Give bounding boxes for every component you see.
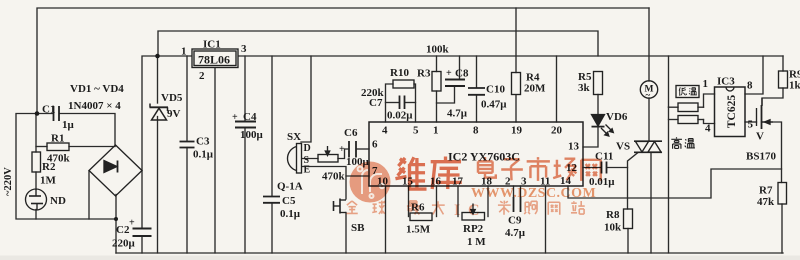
svg-text:E: E	[304, 165, 311, 176]
svg-text:20M: 20M	[524, 83, 546, 95]
wire C8 riser	[459, 56, 461, 79]
svg-text:R3: R3	[417, 68, 431, 80]
wire temp select rail	[668, 56, 670, 107]
svg-text:5: 5	[413, 125, 419, 137]
wire resistor stubs right	[698, 106, 704, 108]
resistor R1	[47, 143, 69, 151]
trimmer 470k	[318, 146, 338, 162]
svg-text:+: +	[446, 68, 452, 79]
svg-text:78L06: 78L06	[198, 53, 230, 67]
watermark char qiu	[372, 201, 385, 214]
svg-text:1.5M: 1.5M	[406, 224, 431, 236]
wire C3 branch	[186, 56, 188, 141]
svg-text:1: 1	[433, 125, 439, 137]
wire ND to AC bottom	[35, 210, 37, 220]
svg-text:C6: C6	[344, 127, 358, 139]
capacitor C6 polarized	[349, 141, 356, 158]
svg-text:47k: 47k	[757, 196, 775, 208]
wire 6V bus from IC1 pin3	[238, 55, 783, 57]
watermark char da	[432, 201, 445, 214]
zener diode VD5	[150, 104, 169, 121]
wire R3 riser	[436, 56, 438, 72]
svg-text:BS170: BS170	[746, 151, 776, 163]
capacitor C5	[263, 197, 280, 203]
wire sensor S to 470k	[302, 158, 319, 160]
wire pin15 drop	[408, 186, 410, 217]
wire VD5 branch	[157, 56, 159, 103]
svg-text:D: D	[304, 143, 311, 154]
wire bridge left vertex down	[88, 171, 90, 219]
wire pin18 drop	[487, 186, 489, 217]
neon lamp ND	[26, 189, 47, 210]
watermark logo circle	[350, 162, 391, 203]
svg-text:~: ~	[646, 90, 651, 100]
svg-text:8: 8	[473, 125, 479, 137]
svg-text:RP2: RP2	[463, 223, 484, 235]
svg-text:C: C	[468, 202, 480, 219]
svg-text:8: 8	[747, 80, 753, 92]
svg-text:+: +	[339, 144, 345, 155]
wire C8 bottom to pin1 net	[437, 87, 455, 104]
wire R9 bottom to drain	[762, 88, 783, 105]
watermark char wei	[395, 157, 426, 189]
wire source to R7	[762, 122, 782, 183]
svg-text:470k: 470k	[322, 171, 346, 183]
svg-text:3: 3	[241, 43, 247, 55]
svg-text:C8: C8	[455, 68, 469, 80]
wire C4 branch	[244, 56, 246, 121]
svg-text:5: 5	[748, 119, 754, 131]
wire IC3 pin4	[704, 120, 715, 124]
wire R2 to ND	[35, 172, 37, 190]
watermark char gou	[524, 201, 537, 214]
wire	[271, 204, 273, 253]
label box low-temp	[676, 86, 699, 98]
wire triac to ground	[650, 152, 652, 253]
svg-text:V: V	[756, 131, 764, 143]
svg-text:1M: 1M	[40, 175, 57, 187]
wire C6 to pin6	[357, 148, 369, 150]
wire pin12 to C11	[583, 167, 601, 169]
potentiometer RP2	[462, 204, 485, 221]
wire C5 branch	[271, 56, 273, 196]
wire	[244, 128, 246, 253]
wire gate node to R8	[627, 168, 629, 210]
svg-text:10k: 10k	[604, 222, 622, 234]
node A junction dot AC input	[35, 111, 40, 116]
svg-text:R1: R1	[51, 133, 64, 145]
svg-text:R7: R7	[759, 185, 773, 197]
voltage regulator IC1 78L06	[192, 49, 238, 68]
wire	[141, 237, 143, 253]
IC U3 TC625	[715, 87, 746, 137]
label low-temp glyphs	[679, 87, 697, 95]
wire IC3 pin5 to gate	[745, 121, 757, 123]
svg-text:R10: R10	[390, 67, 409, 79]
svg-text:0.02μ: 0.02μ	[387, 110, 413, 122]
watermark char quan	[347, 201, 358, 213]
wire C1 branch to bridge top	[38, 113, 53, 115]
wire pin2 drop to C9	[513, 186, 515, 197]
wire motor to triac	[648, 98, 650, 141]
svg-text:VS: VS	[616, 141, 630, 153]
wire R9 from 6V bus	[782, 56, 784, 71]
wire	[69, 146, 115, 148]
svg-text:C10: C10	[486, 84, 505, 96]
capacitor C8 polarized	[445, 80, 465, 87]
svg-text:~220V: ~220V	[3, 167, 14, 196]
resistor R4	[512, 73, 521, 95]
wire R3 to pin1	[436, 91, 438, 122]
LED VD6	[592, 115, 614, 137]
capacitor C3	[180, 142, 195, 148]
wire	[405, 102, 416, 104]
capacitor C4 polarized	[235, 122, 256, 128]
wire IC3 pin1	[704, 94, 715, 107]
wire	[186, 148, 188, 254]
node C junction dot AC bottom	[114, 217, 118, 221]
wire 9V bus	[158, 31, 598, 56]
capacitor C1	[54, 106, 60, 121]
wire IC3 pin8 riser to 6V	[745, 56, 763, 94]
svg-text:4.7μ: 4.7μ	[505, 227, 526, 239]
svg-text:1N4007 × 4: 1N4007 × 4	[68, 100, 121, 112]
svg-text:20: 20	[551, 125, 563, 137]
svg-text:100μ: 100μ	[240, 129, 264, 141]
svg-text:4: 4	[382, 125, 388, 137]
wire motor feed	[648, 8, 650, 81]
svg-text:C3: C3	[196, 136, 210, 148]
svg-text:9V: 9V	[167, 108, 181, 120]
bridge rectifier VD1-VD4	[89, 145, 142, 196]
svg-text:IC3: IC3	[717, 76, 735, 88]
wire bridge right vertex up to 9V node	[142, 56, 192, 171]
svg-text:2: 2	[199, 70, 205, 82]
wire	[668, 107, 670, 253]
wire C2 branch	[141, 171, 143, 228]
wire	[698, 119, 704, 121]
svg-text:13: 13	[568, 141, 580, 153]
wire pin10 to ground	[385, 186, 387, 253]
svg-text:VD1 ~ VD4: VD1 ~ VD4	[70, 83, 124, 95]
svg-text:SB: SB	[351, 222, 365, 234]
svg-text:C7: C7	[369, 97, 383, 109]
wire top AC bus	[37, 8, 649, 114]
svg-text:WWW.DZSC.COM: WWW.DZSC.COM	[471, 186, 596, 201]
watermark char cai	[498, 201, 511, 215]
wire ground bus	[116, 252, 783, 254]
wire R1 parallel branch	[35, 114, 37, 152]
resistor R3	[432, 72, 441, 92]
wire	[60, 114, 115, 147]
svg-text:1μ: 1μ	[62, 119, 75, 131]
wire	[414, 84, 416, 122]
watermark char zhan	[571, 201, 585, 214]
svg-text:1k: 1k	[789, 80, 800, 92]
wire	[157, 117, 159, 254]
watermark char shi	[527, 157, 550, 181]
svg-text:3k: 3k	[578, 82, 591, 94]
svg-text:ND: ND	[50, 195, 66, 207]
capacitor C11	[602, 162, 607, 174]
svg-text:1 M: 1 M	[467, 236, 486, 248]
resistor R6	[410, 213, 432, 221]
svg-text:4: 4	[705, 123, 711, 135]
svg-text:C1: C1	[42, 104, 55, 116]
svg-text:0.1μ: 0.1μ	[280, 208, 301, 220]
svg-text:0.47μ: 0.47μ	[481, 99, 507, 111]
wire R4 riser from AC bus	[515, 8, 517, 73]
watermark char zui	[407, 201, 420, 214]
svg-text:SX: SX	[287, 131, 301, 143]
watermark char wang2	[548, 202, 560, 214]
svg-text:VD6: VD6	[606, 111, 628, 123]
wire C11 to gate node	[607, 153, 638, 168]
svg-text:100k: 100k	[426, 44, 450, 56]
wire R8 to ground	[627, 229, 629, 254]
capacitor C7	[400, 96, 405, 110]
wire	[669, 119, 679, 121]
resistor temp select upper	[678, 103, 698, 112]
node B junction dot 9V rail	[155, 54, 160, 59]
svg-text:4.7μ: 4.7μ	[447, 108, 468, 120]
humidity sensor SX Q-1A	[288, 144, 302, 174]
watermark char wang	[581, 160, 600, 181]
wire sensor D riser	[301, 56, 311, 142]
triac VS	[634, 141, 662, 152]
svg-text:6: 6	[372, 139, 378, 151]
wire 470k to C6	[338, 149, 348, 159]
svg-text:C2: C2	[116, 224, 130, 236]
wire C10 to pin8	[476, 95, 478, 122]
svg-text:+: +	[129, 218, 135, 229]
wire R5 to VD6	[597, 95, 599, 115]
wire R4 to pin19	[515, 95, 517, 122]
svg-text:C9: C9	[508, 215, 522, 227]
label high-temp glyphs	[671, 137, 695, 148]
svg-text:+: +	[232, 112, 238, 123]
svg-text:IC1: IC1	[203, 39, 221, 51]
wire IC1 pin2 to ground	[214, 68, 216, 253]
wire R7 to ground	[781, 204, 783, 253]
svg-text:I: I	[454, 202, 460, 219]
wire pin7	[346, 175, 369, 177]
wire pin14 to MOSFET source	[568, 169, 782, 198]
wire sensor E lead	[302, 167, 347, 200]
wire	[36, 146, 47, 148]
IC U2 YX7603C	[369, 122, 583, 186]
wire pin3 drop to C9	[520, 186, 522, 197]
resistor R8	[624, 209, 633, 229]
resistor R9	[779, 71, 788, 88]
watermark char chang	[553, 159, 576, 181]
svg-text:1: 1	[703, 78, 709, 90]
wire	[386, 102, 399, 104]
wire resistor stubs left	[669, 106, 679, 108]
capacitor C10	[468, 88, 485, 95]
svg-text:220μ: 220μ	[112, 238, 136, 250]
svg-text:C5: C5	[282, 195, 296, 207]
wire C10 riser	[476, 56, 478, 88]
motor M	[640, 81, 657, 98]
watermark char zi	[501, 159, 523, 180]
svg-text:Q-1A: Q-1A	[277, 181, 303, 193]
svg-text:R2: R2	[42, 161, 56, 173]
wire pin16 drop	[436, 186, 438, 217]
svg-text:R8: R8	[606, 209, 620, 221]
resistor R5	[594, 72, 603, 95]
watermark char dian	[478, 157, 496, 178]
svg-text:C4: C4	[243, 111, 257, 123]
svg-text:0.1μ: 0.1μ	[193, 149, 214, 161]
capacitor C9	[514, 197, 521, 212]
svg-text:VD5: VD5	[161, 92, 183, 104]
wire pin11 to ground	[545, 186, 547, 253]
wire VD6 to pin13	[583, 127, 598, 147]
wire pin4 pin5 R10 C7	[386, 84, 394, 122]
wire SB to ground	[345, 213, 347, 254]
resistor R2	[32, 152, 41, 172]
wire bridge bottom to ground bus	[115, 195, 117, 254]
wire pin20 riser	[556, 56, 558, 122]
wire pin17 drop	[457, 186, 459, 217]
resistor R10	[393, 80, 414, 88]
svg-text:19: 19	[511, 125, 523, 137]
resistor temp select lower	[678, 116, 698, 124]
watermark char ku	[431, 156, 462, 189]
MOSFET Q1 BS170	[757, 98, 774, 129]
capacitor C2 polarized	[133, 229, 152, 237]
pushbutton SB	[334, 199, 347, 214]
wire AC source loop left	[16, 114, 116, 220]
svg-text:1: 1	[181, 46, 187, 58]
svg-text:TC625: TC625	[726, 95, 738, 128]
resistor R7	[778, 183, 787, 205]
